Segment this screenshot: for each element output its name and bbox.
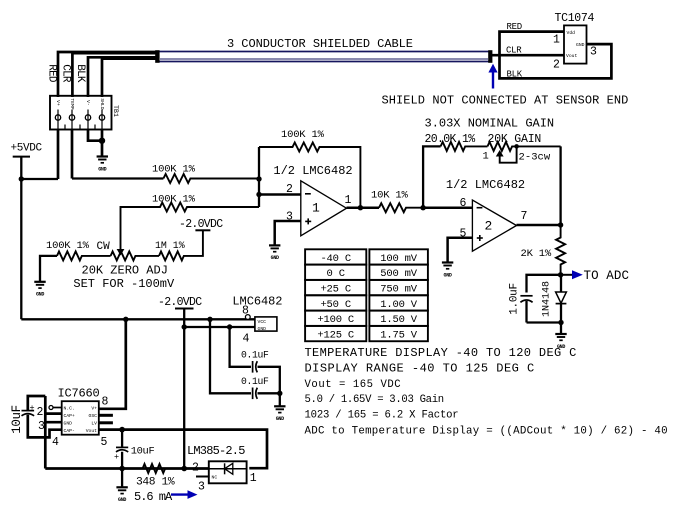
wire to op2 inverting input	[423, 206, 472, 209]
ground (ADC filter)	[555, 334, 566, 350]
junction input node	[256, 176, 261, 181]
wire TEMP terminal to input resistor	[71, 130, 74, 179]
svg-text:CW: CW	[97, 241, 111, 253]
svg-text:3: 3	[38, 420, 45, 433]
connector TB1	[50, 96, 112, 130]
svg-text:2: 2	[286, 183, 293, 196]
wire SHLD conductor (left)	[102, 59, 158, 97]
svg-text:2: 2	[553, 59, 560, 72]
svg-text:348 1%: 348 1%	[136, 476, 175, 488]
svg-text:CLR: CLR	[59, 64, 71, 83]
svg-text:100K 1%: 100K 1%	[281, 129, 325, 141]
resistor 20.0K 1%	[441, 142, 488, 151]
wire capacitor branch	[527, 275, 561, 293]
svg-text:1023 / 165 = 6.2 X Factor: 1023 / 165 = 6.2 X Factor	[305, 409, 459, 421]
svg-text:BLK: BLK	[507, 69, 523, 79]
capacitor 1.0uF	[520, 296, 532, 323]
resistor 1M 1%	[159, 230, 203, 260]
svg-text:1N4148: 1N4148	[541, 281, 552, 317]
wire gnd to 100K	[40, 256, 57, 282]
svg-text:10uF: 10uF	[10, 405, 24, 433]
svg-text:1: 1	[345, 194, 352, 207]
wire to op-amp inverting input	[259, 193, 301, 196]
svg-text:0.1uF: 0.1uF	[241, 376, 269, 387]
svg-text:1.50 V: 1.50 V	[380, 314, 418, 326]
junction TO ADC node	[558, 272, 563, 277]
shielded cable	[155, 50, 492, 63]
wire CAP+ pin	[45, 412, 61, 415]
supply -2.0VDC (zero adj)	[179, 218, 223, 231]
svg-text:LV: LV	[91, 421, 97, 427]
svg-text:1.0uF: 1.0uF	[508, 283, 520, 315]
svg-text:1/2 LMC6482: 1/2 LMC6482	[446, 178, 525, 192]
svg-text:TC1074: TC1074	[555, 12, 595, 25]
svg-text:100 mV: 100 mV	[380, 253, 418, 265]
wire V+ terminal to +5V	[57, 130, 60, 180]
wire bypass cap2 branch	[210, 319, 251, 393]
svg-text:500 mV: 500 mV	[380, 268, 418, 280]
junction output/feedback	[358, 205, 363, 210]
svg-text:TEMPERATURE DISPLAY -40 TO 120: TEMPERATURE DISPLAY -40 TO 120 DEG C	[305, 346, 577, 360]
svg-text:Vdd: Vdd	[567, 30, 576, 36]
svg-text:IC7660: IC7660	[58, 386, 100, 400]
diode 1N4148	[556, 275, 567, 323]
ground (bypass)	[274, 406, 285, 422]
svg-text:SET FOR -100mV: SET FOR -100mV	[73, 277, 175, 291]
svg-text:+: +	[114, 452, 119, 462]
svg-text:+50 C: +50 C	[320, 299, 351, 311]
svg-text:2-3cw: 2-3cw	[519, 151, 551, 163]
svg-text:20.0K 1%: 20.0K 1%	[425, 133, 476, 146]
wire V+ pin 8 to rail	[99, 319, 126, 409]
svg-text:6: 6	[460, 197, 467, 210]
wire op1 non-inverting input	[275, 221, 301, 245]
wire BLK conductor (left)	[88, 57, 158, 97]
svg-text:+: +	[30, 403, 35, 413]
svg-text:1M 1%: 1M 1%	[155, 240, 185, 251]
resistor 348 1%	[143, 464, 166, 473]
svg-text:GND: GND	[36, 292, 44, 298]
svg-text:NC: NC	[212, 474, 218, 480]
wire -2V rail to opamp GND pin	[184, 326, 255, 328]
pin LV stub	[99, 421, 113, 424]
ground (charge pump)	[116, 487, 127, 503]
ground (TB1 shield)	[97, 157, 108, 173]
svg-text:RED: RED	[507, 22, 522, 32]
wire +5V rail to opamp VCC	[21, 318, 255, 320]
svg-text:Vout: Vout	[86, 428, 97, 434]
svg-text:-40 C: -40 C	[320, 253, 351, 265]
svg-text:GND: GND	[576, 42, 585, 48]
svg-text:GND: GND	[271, 255, 279, 261]
svg-text:-2.0VDC: -2.0VDC	[158, 296, 202, 309]
resistor 10K 1%	[379, 203, 423, 212]
junction +5VDC / V+	[19, 176, 24, 181]
svg-text:RED: RED	[46, 64, 58, 83]
pin OSC stub	[99, 414, 113, 417]
svg-text:2: 2	[192, 462, 199, 475]
svg-text:V+: V+	[91, 406, 97, 412]
svg-text:GND: GND	[118, 497, 126, 503]
power box LMC6482 VCC/GND	[245, 315, 276, 333]
wire bypass gnd	[279, 393, 281, 406]
wire CLR conductor (left)	[72, 53, 158, 97]
wire Vout to LM385 pin1	[99, 430, 267, 469]
svg-text:1: 1	[483, 150, 489, 162]
svg-text:GND: GND	[276, 416, 284, 422]
wire cap to diode bottom	[527, 323, 562, 334]
wire V- terminal to shield node	[88, 130, 102, 141]
svg-text:20K ZERO ADJ: 20K ZERO ADJ	[82, 264, 168, 278]
svg-text:TEMP: TEMP	[69, 98, 75, 109]
wire CLR to sensor	[492, 54, 564, 57]
svg-text:1.00 V: 1.00 V	[380, 299, 418, 311]
wire GND pin	[45, 421, 61, 424]
svg-text:10K 1%: 10K 1%	[371, 190, 409, 202]
svg-text:SHIELD NOT CONNECTED AT SENSOR: SHIELD NOT CONNECTED AT SENSOR END	[382, 94, 629, 108]
resistor 2K 1% (vertical)	[556, 225, 565, 275]
wire +5VDC vertical	[20, 157, 22, 320]
svg-text:GND: GND	[258, 326, 267, 332]
junction shield/V-	[99, 138, 105, 144]
svg-text:2: 2	[37, 406, 44, 419]
blue arrow (shield not connected)	[488, 64, 497, 89]
junction wiper	[514, 144, 519, 149]
svg-text:0 C: 0 C	[327, 268, 345, 280]
svg-text:20K GAIN: 20K GAIN	[488, 133, 542, 146]
svg-text:3: 3	[590, 46, 597, 59]
svg-text:5: 5	[101, 436, 108, 449]
junction rail / output cap	[119, 466, 125, 472]
resistor 100K 1% (offset)	[121, 203, 260, 251]
wire gain network left	[423, 146, 441, 207]
wire bypass cap1 branch	[230, 327, 251, 367]
pin N.C. stub	[49, 406, 62, 410]
svg-text:100K 1%: 100K 1%	[152, 164, 196, 176]
svg-text:GND: GND	[98, 166, 106, 172]
junction -2V rail	[182, 324, 187, 329]
voltage reference LM385-2.5	[209, 461, 247, 483]
svg-text:VCC: VCC	[258, 319, 267, 325]
temperature sensor TC1074	[564, 25, 587, 63]
junction inverting node	[256, 192, 261, 197]
junction -2V / rail	[181, 466, 187, 472]
svg-text:LMC6482: LMC6482	[232, 295, 282, 309]
svg-text:CAP+: CAP+	[64, 413, 75, 419]
op-amp U1A	[301, 181, 347, 236]
op-amp U1B	[472, 200, 516, 251]
svg-text:-2.0VDC: -2.0VDC	[179, 218, 223, 231]
svg-text:2K 1%: 2K 1%	[521, 248, 552, 260]
wire gain network right	[559, 146, 561, 225]
svg-text:4: 4	[243, 333, 250, 346]
resistor 100K 1% (zero adj chain)	[57, 251, 111, 260]
svg-text:7: 7	[521, 210, 528, 223]
junction rail2 / bypass cap	[227, 324, 232, 329]
junction bypass caps	[277, 391, 282, 396]
svg-text:10uF: 10uF	[131, 446, 155, 458]
potentiometer 20K GAIN	[488, 142, 561, 163]
capacitor 0.1uF #2	[253, 388, 280, 400]
wire RED/BLK loop at sensor	[500, 32, 612, 79]
wire bottom rail	[45, 467, 209, 470]
svg-text:GND: GND	[444, 272, 452, 278]
svg-text:4: 4	[52, 436, 59, 449]
junction op2 output	[558, 222, 563, 227]
wire RED conductor (left)	[58, 52, 158, 97]
svg-text:Vout: Vout	[566, 53, 577, 59]
svg-text:CLR: CLR	[506, 46, 522, 56]
svg-text:LM385-2.5: LM385-2.5	[187, 444, 245, 458]
supply +5VDC	[11, 142, 43, 156]
supply -2.0VDC (mid)	[158, 296, 202, 309]
svg-text:TO ADC: TO ADC	[584, 269, 630, 283]
svg-text:1.75 V: 1.75 V	[380, 329, 418, 341]
svg-text:3: 3	[198, 481, 205, 494]
svg-text:1: 1	[250, 472, 257, 485]
svg-text:8: 8	[102, 396, 109, 409]
svg-text:750 mV: 750 mV	[380, 283, 418, 295]
wire TEMP horizontal to input resistor	[72, 177, 163, 179]
wire SHLD to ground	[101, 130, 104, 157]
svg-text:N.C.: N.C.	[64, 406, 75, 412]
svg-text:2: 2	[485, 219, 493, 234]
junction rail1 / bypass cap	[207, 317, 212, 322]
svg-text:1: 1	[553, 34, 560, 47]
svg-text:100K 1%: 100K 1%	[152, 194, 196, 206]
charge pump IC7660	[62, 401, 99, 435]
svg-text:5.0 / 1.65V = 3.03 Gain: 5.0 / 1.65V = 3.03 Gain	[305, 394, 444, 406]
wire -2.0VDC vertical	[183, 309, 185, 469]
wire and arrow TO ADC	[561, 270, 583, 279]
junction Vout	[119, 427, 125, 433]
capacitor 10uF (pump, with + mark)	[22, 396, 62, 437]
svg-text:V+: V+	[55, 100, 61, 106]
svg-text:DISPLAY RANGE -40 TO 125 DEG C: DISPLAY RANGE -40 TO 125 DEG C	[305, 362, 535, 376]
ground (op1 +)	[269, 245, 280, 261]
svg-text:+5VDC: +5VDC	[11, 142, 43, 154]
wire op2 output	[517, 224, 561, 227]
svg-text:V-: V-	[85, 100, 91, 106]
capacitor 10uF (output, with + mark)	[114, 430, 128, 469]
junction rail1 / IC7660 V+	[123, 317, 128, 322]
svg-text:SHLD: SHLD	[99, 98, 105, 109]
pin 3 stub (LM385)	[196, 477, 210, 494]
svg-text:CAP-: CAP-	[64, 428, 75, 434]
svg-text:5.6 mA: 5.6 mA	[134, 490, 173, 504]
capacitor 0.1uF #1	[253, 361, 280, 393]
svg-text:OSC: OSC	[89, 413, 98, 419]
svg-text:3 CONDUCTOR SHIELDED CABLE: 3 CONDUCTOR SHIELDED CABLE	[227, 37, 413, 51]
svg-text:1/2 LMC6482: 1/2 LMC6482	[273, 164, 352, 178]
svg-text:+25 C: +25 C	[320, 283, 351, 295]
svg-text:+125 C: +125 C	[317, 329, 354, 341]
svg-text:GND: GND	[64, 421, 73, 427]
ground (op2 +)	[442, 263, 453, 279]
resistor 100K 1% (input)	[163, 174, 259, 183]
svg-text:Vout = 165 VDC: Vout = 165 VDC	[305, 379, 402, 391]
wire V+ horizontal to +5V	[21, 178, 58, 180]
blue arrow 5.6 mA	[171, 490, 198, 499]
potentiometer 20K ZERO ADJ	[111, 249, 159, 260]
junction gain node	[420, 205, 425, 210]
wire summing node vertical	[258, 147, 260, 207]
table temperature/voltage	[305, 249, 428, 341]
resistor 100K 1% (feedback)	[259, 143, 360, 208]
svg-text:BLK: BLK	[74, 64, 86, 83]
svg-text:ADC to Temperature Display = (: ADC to Temperature Display = ((ADCout * …	[305, 426, 668, 438]
wire op1 output	[347, 206, 380, 209]
svg-text:1: 1	[312, 201, 320, 216]
svg-text:3.03X NOMINAL GAIN: 3.03X NOMINAL GAIN	[425, 117, 555, 131]
wire to gnd (output cap)	[121, 469, 123, 488]
svg-text:0.1uF: 0.1uF	[241, 350, 269, 361]
ground (zero adj)	[34, 282, 45, 298]
svg-text:8: 8	[242, 305, 249, 318]
svg-text:TB1: TB1	[112, 105, 119, 117]
wire vertical to bottom rail	[44, 396, 47, 469]
svg-text:100K 1%: 100K 1%	[46, 240, 90, 252]
wire op2 non-inverting input	[448, 238, 473, 263]
svg-text:+100 C: +100 C	[317, 314, 354, 326]
junction filter bottom	[558, 320, 563, 325]
